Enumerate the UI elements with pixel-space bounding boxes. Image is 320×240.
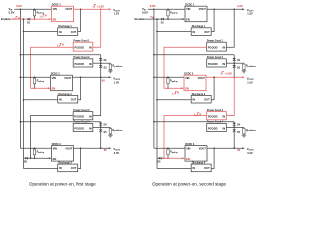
wire D3 to VOUT2 (233, 68, 235, 78)
svg-text:VOUT: VOUT (199, 7, 207, 11)
resistor Rpullup (DCDC1 EN) (34, 8, 36, 11)
svg-text:H: H (45, 15, 47, 18)
wire node to Power Good 4 IN (93, 126, 101, 128)
wire Enable (10, 18, 51, 20)
svg-text:H: H (200, 113, 202, 116)
junction discharge bus on Enable wire (156, 18, 158, 20)
diode D5 (233, 127, 235, 129)
wire Discharge 3 IN to bus (157, 168, 191, 170)
svg-text:H: H (62, 44, 64, 47)
diode D6 (159, 157, 161, 160)
junction VOUT3 / sense column (233, 147, 235, 149)
wire DCDC2 VIN from bus (20, 76, 50, 78)
svg-text:3.3V: 3.3V (247, 151, 253, 155)
svg-text:IN: IN (193, 98, 196, 102)
wire PGOOD1 to DCDC2 EN (red) (164, 47, 207, 88)
junction VOUT3 / Discharge 3 (213, 147, 215, 149)
junction VOUT2 / Discharge 2 (213, 76, 215, 78)
svg-text:IN: IN (223, 46, 226, 50)
svg-text:IN: IN (59, 30, 62, 34)
junction VOUT1 / sense column (233, 8, 235, 10)
svg-text:IN: IN (193, 166, 196, 170)
svg-text:Rpullup: Rpullup (37, 150, 45, 153)
svg-text:IN: IN (89, 62, 92, 66)
wire D2 to node (233, 61, 235, 64)
wire VIN bus (vertical) (153, 9, 155, 148)
svg-text:3.3V: 3.3V (114, 151, 120, 155)
wire EN3 (164, 157, 183, 159)
wire VOUT2 to Discharge 2 OUT (78, 77, 81, 100)
junction VOUT3 / Discharge 3 (80, 147, 82, 149)
wire VIN bus to D4 (153, 121, 155, 123)
svg-text:PGOOD: PGOOD (208, 46, 218, 50)
svg-text:PGOOD: PGOOD (208, 115, 218, 119)
diode D2 (233, 58, 236, 61)
diode D4 (99, 123, 102, 126)
svg-text:VOUT: VOUT (65, 7, 73, 11)
svg-text:Rpulldown: Rpulldown (246, 65, 257, 68)
svg-text:1.2V: 1.2V (247, 11, 253, 15)
svg-text:IN: IN (59, 166, 62, 170)
resistor Rpulldown (PG2) (243, 62, 245, 65)
svg-text:PGOOD: PGOOD (74, 115, 84, 119)
svg-text:5.0V: 5.0V (9, 10, 15, 14)
annotation (2) +1.5V (red) (221, 72, 224, 74)
svg-text:1.5V: 1.5V (247, 80, 253, 84)
wire VOUT1 (74, 8, 110, 10)
wire VOUT3 (207, 147, 243, 149)
svg-text:1.2V: 1.2V (237, 4, 243, 8)
wire VOUT3 (74, 147, 110, 149)
wire VOUT2 to Discharge 2 OUT (211, 77, 214, 100)
junction PGOOD3 line / EN3 wire (163, 157, 165, 159)
svg-text:VIN: VIN (53, 147, 57, 151)
svg-text:Rpullup: Rpullup (170, 11, 178, 14)
svg-text:OUT: OUT (204, 98, 210, 102)
wire node to Power Good 2 IN (226, 62, 234, 64)
svg-text:Rpulldown: Rpulldown (246, 129, 257, 132)
wire Enable/discharge bus (vertical) (156, 19, 158, 168)
svg-text:Rpulldown: Rpulldown (112, 129, 123, 132)
svg-text:5.0V: 5.0V (150, 4, 156, 8)
wire D5 to VOUT3 (100, 132, 102, 149)
svg-text:5.0V: 5.0V (142, 10, 148, 14)
resistor Rpullup (DCDC2 EN) (167, 76, 169, 79)
svg-text:PGOOD: PGOOD (74, 46, 84, 50)
wire VOUT2 sense to Power Good 3 IN (226, 77, 234, 115)
wire VOUT1 to Discharge 1 OUT (211, 9, 214, 31)
svg-text:PGOOD: PGOOD (74, 62, 84, 66)
svg-text:EN: EN (185, 87, 189, 91)
wire VOUT1 to Discharge 1 OUT (78, 9, 81, 31)
svg-text:IN: IN (193, 30, 196, 34)
wire VIN bus (vertical) (19, 9, 21, 148)
wire node to Rpulldown (234, 62, 244, 64)
wire Discharge 1 IN to bus (157, 31, 191, 33)
junction PG2 IN node (233, 62, 235, 64)
wire D4 to node (100, 125, 102, 127)
wire VOUT1 (207, 8, 243, 10)
diode D6 (25, 157, 27, 160)
wire Discharge 2 IN to bus (157, 99, 191, 101)
svg-text:VIN: VIN (53, 7, 57, 11)
wire EN3 (31, 157, 50, 159)
svg-text:Operation at power-on, second: Operation at power-on, second stage (152, 181, 227, 186)
diode D1 on Enable wire (161, 18, 163, 21)
wire node to Power Good 4 IN (226, 126, 234, 128)
wire D5 to VOUT3 (233, 132, 235, 149)
junction VOUT2 / sense column (100, 76, 102, 78)
svg-text:EN: EN (53, 18, 57, 22)
svg-text:VOUT: VOUT (64, 76, 72, 80)
svg-text:IN: IN (89, 46, 92, 50)
junction VOUT1 / Discharge 1 (213, 8, 215, 10)
svg-text:OUT: OUT (71, 98, 77, 102)
svg-text:Operation at power-on, first s: Operation at power-on, first stage (29, 181, 96, 186)
junction PG2 IN node (100, 62, 102, 64)
svg-text:EN: EN (186, 18, 190, 22)
wire VIN rail (148, 8, 185, 10)
svg-text:IN: IN (89, 115, 92, 119)
svg-text:0V: 0V (102, 79, 105, 83)
svg-text:VOUT: VOUT (199, 147, 207, 151)
resistor Rpullup (DCDC2 EN) (34, 76, 36, 79)
svg-text:Rpullup: Rpullup (37, 79, 45, 82)
svg-text:VOUT: VOUT (65, 147, 73, 151)
svg-text:1.5V: 1.5V (114, 80, 120, 84)
junction VOUT2 / Discharge 2 (80, 76, 82, 78)
svg-text:OUT: OUT (71, 30, 77, 34)
ground (PG4 Rpulldown) (109, 134, 111, 136)
diode D5 (100, 127, 102, 129)
wire Enable/discharge bus (vertical) (23, 19, 25, 168)
svg-text:1.2V: 1.2V (114, 11, 120, 15)
svg-text:+1.2V: +1.2V (97, 4, 104, 8)
wire node to Power Good 2 IN (93, 62, 101, 64)
wire node to Rpulldown (101, 62, 111, 64)
svg-text:0V: 0V (104, 149, 107, 152)
wire Discharge 1 IN to bus (24, 31, 58, 33)
svg-text:VOUT: VOUT (198, 76, 206, 80)
ground (PG2 Rpulldown) (243, 69, 245, 71)
svg-text:EN: EN (53, 157, 57, 161)
wire VOUT2 sense to Power Good 3 IN (93, 77, 101, 115)
wire D3 to VOUT2 (100, 68, 102, 78)
junction VOUT1 / Discharge 1 (80, 8, 82, 10)
svg-text:0V: 0V (237, 149, 240, 152)
diode D3 (100, 63, 102, 65)
svg-text:Rpullup: Rpullup (170, 79, 178, 82)
resistor Rpullup (DCDC3 EN) (34, 147, 36, 150)
svg-text:IN: IN (89, 126, 92, 130)
ground (PG4 Rpulldown) (243, 134, 245, 136)
wire VIN bus to D4 (20, 121, 22, 123)
svg-text:VIN: VIN (186, 7, 190, 11)
svg-text:IN: IN (223, 126, 226, 130)
svg-text:H: H (152, 15, 154, 19)
svg-text:IN: IN (223, 115, 226, 119)
svg-text:OUT: OUT (204, 166, 210, 170)
wire VOUT2 (206, 76, 243, 78)
svg-text:PGOOD: PGOOD (208, 62, 218, 66)
wire node to Rpulldown (PG4) (101, 126, 111, 128)
svg-text:PGOOD: PGOOD (208, 126, 218, 130)
svg-text:H: H (177, 92, 179, 95)
junction VIN bus on rail (153, 8, 155, 10)
svg-text:Rpulldown: Rpulldown (112, 65, 123, 68)
wire VOUT3 to Discharge 3 OUT (211, 148, 214, 168)
wire PGOOD1 to DCDC2 EN (red) (31, 47, 74, 88)
wire node to Rpulldown (PG4) (234, 126, 244, 128)
resistor Rpullup (DCDC3 EN) (167, 147, 169, 150)
svg-text:EN: EN (186, 157, 190, 161)
wire DCDC3 EN from bus via D6 (24, 157, 31, 159)
svg-text:IN: IN (223, 62, 226, 66)
wire VOUT2 (73, 76, 110, 78)
svg-text:PGOOD: PGOOD (74, 126, 84, 130)
ground (PG2 Rpulldown) (109, 69, 111, 71)
junction PG4 IN node (100, 127, 102, 129)
svg-text:Enable: Enable (1, 17, 11, 21)
wire D2 to node (100, 61, 102, 64)
junction VOUT1 / sense column (100, 8, 102, 10)
svg-text:Rpullup: Rpullup (170, 150, 178, 153)
svg-text:OUT: OUT (71, 166, 77, 170)
svg-text:H: H (18, 17, 20, 20)
diode D1 on Enable wire (28, 18, 30, 21)
wire DCDC3 VIN from bus (154, 147, 185, 149)
wire DCDC3 EN from bus via D6 (157, 157, 164, 159)
junction PGOOD3 line / EN3 wire (30, 157, 32, 159)
junction PG4 IN node (233, 127, 235, 129)
svg-text:Rpullup: Rpullup (37, 11, 45, 14)
junction VOUT2 / sense column (233, 76, 235, 78)
wire DCDC2 VIN from bus (154, 76, 184, 78)
junction VOUT3 / sense column (100, 147, 102, 149)
svg-text:Enable: Enable (135, 17, 145, 21)
resistor Rpullup (DCDC1 EN) (167, 8, 169, 11)
junction discharge bus on Enable wire (23, 18, 25, 20)
diode D2 (99, 58, 102, 61)
svg-text:5.0V: 5.0V (16, 4, 22, 8)
annotation (1) +1.2V (red) (93, 5, 96, 7)
resistor Rpulldown (PG2) (109, 62, 111, 65)
junction VIN bus on rail (20, 8, 22, 10)
svg-text:+1.5V: +1.5V (225, 71, 232, 75)
wire VOUT1 sense to Power Good 1 IN (93, 9, 101, 47)
wire PGOOD3 to DCDC3 EN (164, 116, 207, 159)
diode D3 (233, 63, 235, 65)
wire D4 to node (233, 125, 235, 127)
resistor Rpulldown (PG4) (109, 126, 111, 129)
wire VIN bus to D2 (153, 54, 155, 56)
wire DCDC3 VIN from bus (20, 147, 51, 149)
svg-text:IN: IN (59, 98, 62, 102)
wire PGOOD3 to DCDC3 EN (31, 116, 74, 159)
wire VIN rail (14, 8, 51, 10)
wire VOUT1 sense to Power Good 1 IN (226, 9, 234, 47)
svg-text:VIN: VIN (185, 76, 189, 80)
resistor Rpulldown (PG4) (243, 126, 245, 129)
wire Discharge 3 IN to bus (24, 168, 58, 170)
diode D4 (233, 123, 236, 126)
svg-text:VIN: VIN (52, 76, 56, 80)
wire Discharge 2 IN to bus (24, 99, 58, 101)
wire VOUT3 to Discharge 3 OUT (78, 148, 81, 168)
wire Enable (143, 18, 184, 20)
wire VIN bus to D2 (20, 54, 22, 56)
svg-text:VIN: VIN (186, 147, 190, 151)
svg-text:EN: EN (52, 87, 56, 91)
svg-text:OUT: OUT (204, 30, 210, 34)
